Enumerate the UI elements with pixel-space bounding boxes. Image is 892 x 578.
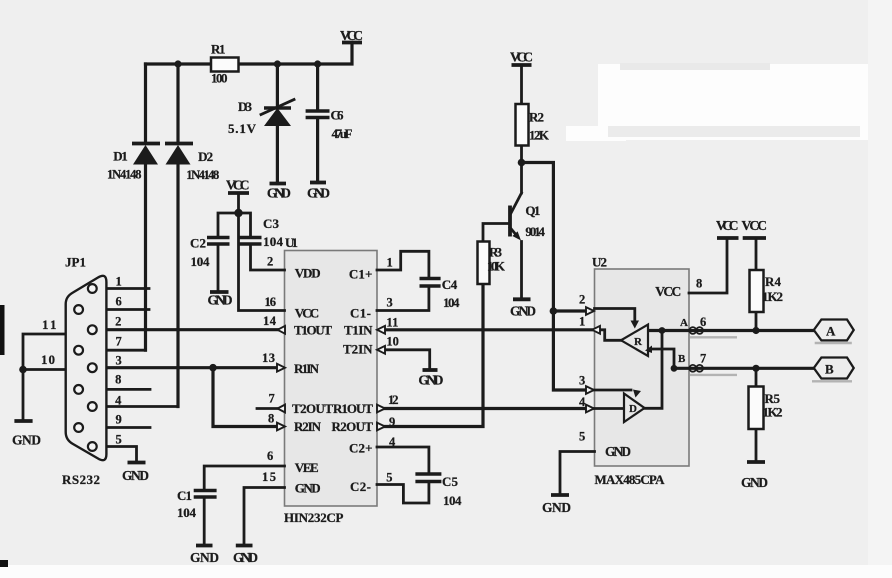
svg-text:3: 3 bbox=[116, 354, 122, 368]
svg-text:GND: GND bbox=[190, 550, 219, 565]
svg-text:MAX485CPA: MAX485CPA bbox=[595, 472, 666, 487]
svg-text:1: 1 bbox=[387, 256, 393, 270]
svg-text:R1: R1 bbox=[211, 42, 226, 57]
svg-text:D3: D3 bbox=[238, 99, 253, 114]
svg-text:VCC: VCC bbox=[716, 218, 739, 233]
svg-text:T2IN: T2IN bbox=[343, 342, 373, 357]
svg-text:104: 104 bbox=[443, 493, 462, 508]
svg-text:12: 12 bbox=[388, 393, 399, 407]
svg-text:VCC: VCC bbox=[510, 50, 533, 65]
svg-text:5: 5 bbox=[386, 471, 392, 485]
svg-text:4: 4 bbox=[579, 395, 586, 409]
svg-text:11: 11 bbox=[386, 316, 398, 330]
svg-text:VCC: VCC bbox=[226, 178, 250, 193]
svg-text:7: 7 bbox=[116, 335, 122, 349]
svg-text:C1+: C1+ bbox=[349, 267, 373, 282]
svg-text:6: 6 bbox=[267, 449, 273, 463]
svg-text:9: 9 bbox=[116, 413, 122, 427]
svg-text:C2+: C2+ bbox=[349, 441, 373, 456]
svg-text:1K2: 1K2 bbox=[763, 405, 783, 420]
svg-text:100: 100 bbox=[211, 71, 228, 86]
svg-text:R2IN: R2IN bbox=[294, 419, 322, 434]
svg-text:VCC: VCC bbox=[742, 218, 768, 233]
svg-text:VDD: VDD bbox=[295, 266, 321, 281]
svg-text:16: 16 bbox=[265, 295, 277, 309]
svg-text:GND: GND bbox=[741, 475, 768, 490]
svg-text:R2: R2 bbox=[529, 110, 544, 125]
svg-text:7: 7 bbox=[269, 392, 275, 406]
svg-text:GND: GND bbox=[122, 468, 149, 483]
svg-text:U2: U2 bbox=[592, 255, 607, 270]
svg-text:D1: D1 bbox=[113, 149, 128, 164]
svg-text:1N4148: 1N4148 bbox=[186, 168, 219, 182]
svg-text:6: 6 bbox=[700, 315, 706, 329]
svg-text:10: 10 bbox=[386, 335, 399, 349]
svg-text:4: 4 bbox=[115, 394, 122, 408]
svg-text:A: A bbox=[680, 317, 688, 329]
svg-text:C1-: C1- bbox=[350, 306, 371, 321]
svg-text:GND: GND bbox=[542, 500, 571, 515]
svg-text:9: 9 bbox=[389, 415, 395, 429]
svg-text:5: 5 bbox=[579, 430, 585, 444]
svg-text:10: 10 bbox=[41, 352, 55, 367]
svg-text:VCC: VCC bbox=[655, 284, 681, 299]
svg-text:C4: C4 bbox=[442, 277, 458, 292]
svg-text:12K: 12K bbox=[529, 128, 550, 143]
svg-text:GND: GND bbox=[510, 304, 536, 319]
svg-text:GND: GND bbox=[233, 550, 258, 565]
svg-text:GND: GND bbox=[295, 481, 321, 496]
svg-text:T2OUT: T2OUT bbox=[292, 401, 333, 416]
svg-text:2: 2 bbox=[267, 255, 273, 269]
svg-text:1: 1 bbox=[579, 315, 585, 329]
svg-text:RS232: RS232 bbox=[62, 472, 100, 487]
svg-text:14: 14 bbox=[263, 314, 277, 328]
svg-text:1K2: 1K2 bbox=[762, 289, 783, 304]
svg-text:3: 3 bbox=[579, 374, 585, 388]
svg-text:3: 3 bbox=[387, 296, 393, 310]
svg-text:5: 5 bbox=[116, 433, 122, 447]
svg-text:D: D bbox=[629, 403, 637, 415]
svg-text:47uF: 47uF bbox=[332, 126, 353, 141]
svg-text:7: 7 bbox=[700, 352, 706, 366]
svg-text:104: 104 bbox=[263, 234, 284, 249]
svg-text:1: 1 bbox=[116, 275, 122, 289]
svg-text:C3: C3 bbox=[263, 216, 280, 231]
svg-text:6: 6 bbox=[116, 295, 122, 309]
svg-text:10K: 10K bbox=[487, 259, 506, 274]
svg-text:5.1V: 5.1V bbox=[228, 121, 257, 136]
svg-text:11: 11 bbox=[42, 317, 57, 332]
svg-text:R2OUT: R2OUT bbox=[332, 419, 374, 434]
svg-text:GND: GND bbox=[605, 444, 631, 459]
svg-text:VEE: VEE bbox=[295, 460, 319, 475]
svg-text:C1: C1 bbox=[177, 488, 192, 503]
svg-text:R4: R4 bbox=[765, 274, 782, 289]
svg-text:B: B bbox=[678, 353, 686, 365]
svg-text:13: 13 bbox=[262, 351, 275, 365]
svg-text:R1IN: R1IN bbox=[294, 361, 320, 376]
svg-text:C2-: C2- bbox=[350, 479, 371, 494]
svg-text:GND: GND bbox=[307, 186, 330, 201]
svg-text:C6: C6 bbox=[331, 108, 345, 123]
svg-text:A: A bbox=[826, 324, 836, 339]
svg-text:4: 4 bbox=[389, 435, 396, 449]
svg-text:8: 8 bbox=[115, 373, 121, 387]
svg-text:T1IN: T1IN bbox=[344, 323, 373, 338]
svg-text:1N4148: 1N4148 bbox=[107, 168, 142, 182]
svg-text:2: 2 bbox=[115, 315, 121, 329]
svg-text:C5: C5 bbox=[442, 474, 459, 489]
svg-text:T1OUT: T1OUT bbox=[294, 323, 332, 338]
svg-text:C2: C2 bbox=[190, 236, 206, 251]
svg-text:VCC: VCC bbox=[340, 28, 363, 43]
svg-text:GND: GND bbox=[418, 373, 443, 388]
svg-text:D2: D2 bbox=[198, 149, 213, 164]
svg-text:104: 104 bbox=[443, 295, 460, 310]
svg-text:GND: GND bbox=[208, 293, 233, 308]
svg-text:8: 8 bbox=[268, 412, 274, 426]
svg-text:R3: R3 bbox=[489, 245, 503, 260]
svg-text:8: 8 bbox=[696, 277, 702, 291]
svg-text:104: 104 bbox=[177, 505, 197, 520]
svg-text:JP1: JP1 bbox=[65, 255, 86, 270]
svg-text:9014: 9014 bbox=[525, 224, 545, 239]
svg-text:B: B bbox=[825, 362, 834, 377]
svg-text:GND: GND bbox=[267, 186, 291, 201]
svg-text:VCC: VCC bbox=[295, 306, 320, 321]
svg-text:R1OUT: R1OUT bbox=[333, 401, 373, 416]
svg-text:104: 104 bbox=[191, 254, 211, 269]
svg-text:HIN232CP: HIN232CP bbox=[284, 510, 344, 525]
svg-text:15: 15 bbox=[262, 470, 276, 484]
svg-text:Q1: Q1 bbox=[525, 203, 540, 218]
svg-text:R: R bbox=[634, 336, 643, 348]
svg-text:2: 2 bbox=[579, 293, 585, 307]
svg-text:GND: GND bbox=[12, 433, 41, 448]
svg-text:U1: U1 bbox=[285, 235, 298, 250]
